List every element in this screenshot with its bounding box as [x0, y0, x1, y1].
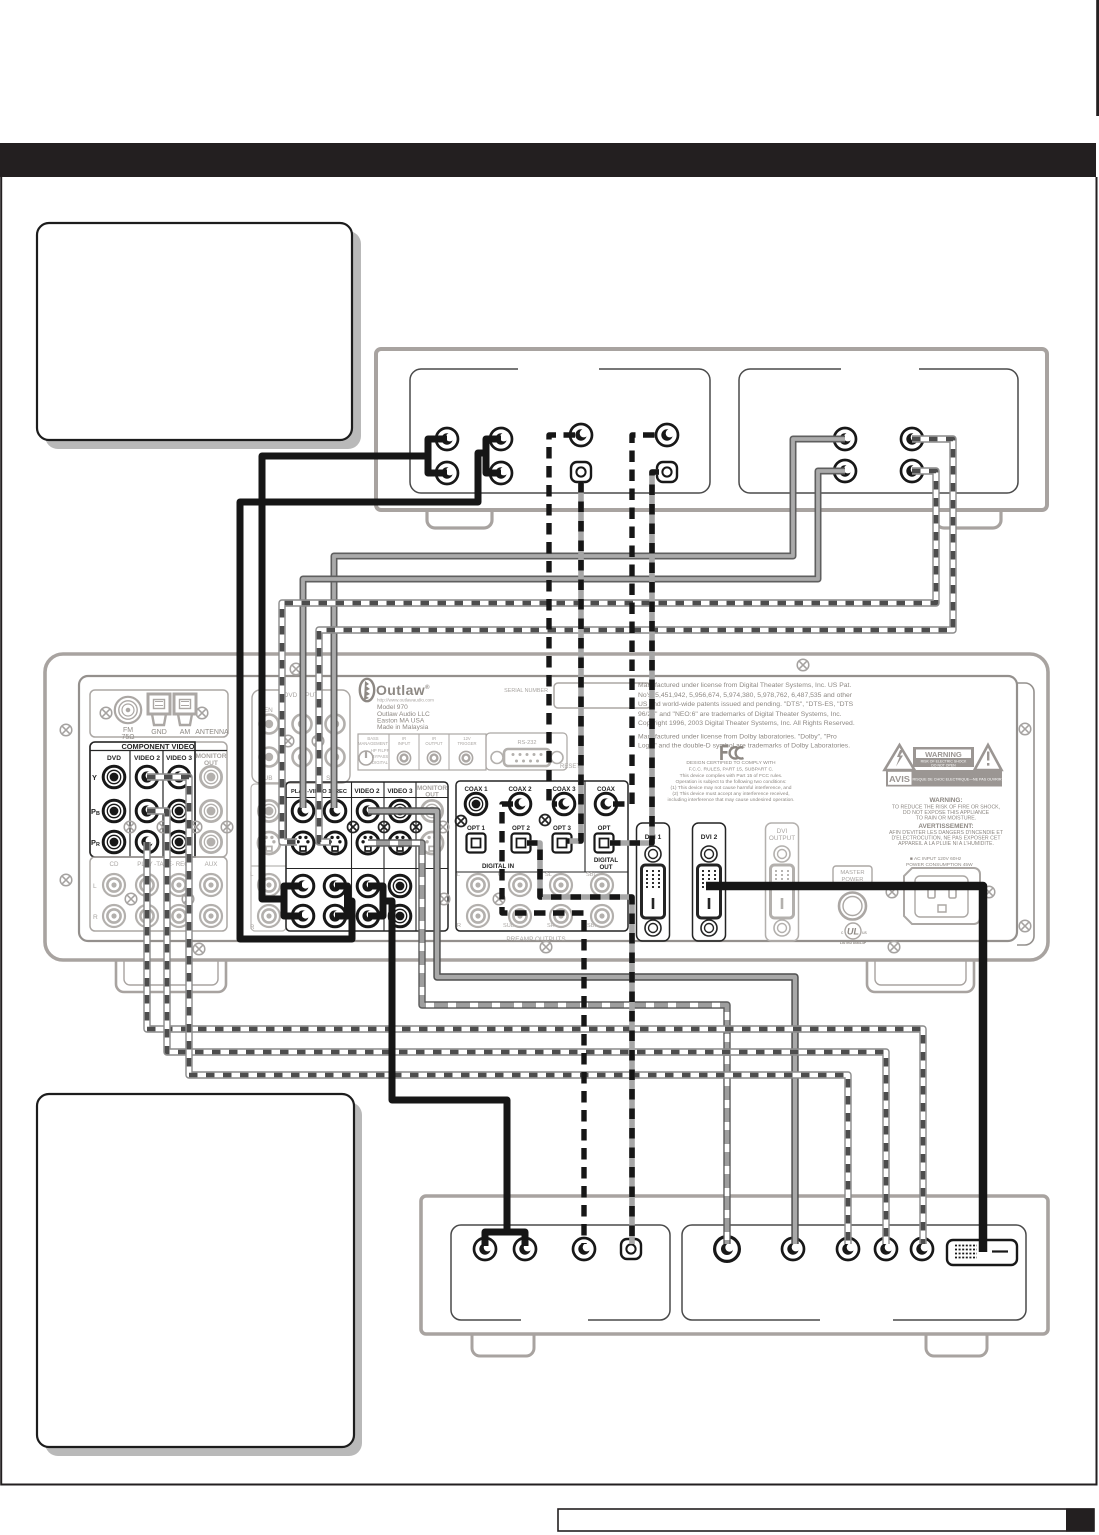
video box: [286, 782, 448, 931]
component jacks DVD col: [103, 766, 125, 788]
master power: [833, 866, 872, 884]
svg-text:OPT: OPT: [598, 825, 611, 832]
receiver inner panel: [79, 676, 1017, 941]
DTS license text: [638, 682, 855, 750]
component column dividers: [130, 751, 195, 858]
svg-text:R: R: [250, 924, 255, 931]
s-video jacks row: [292, 832, 314, 854]
TV inner box 1: [451, 1225, 670, 1320]
svg-text:DVD: DVD: [107, 755, 121, 762]
svg-text:COMPONENT VIDEO: COMPONENT VIDEO: [121, 742, 194, 751]
DVI 1 connector: [637, 823, 670, 941]
top device video out jack A2: [834, 460, 856, 482]
svg-text:VIDEO 2: VIDEO 2: [354, 788, 380, 795]
coax digital jacks: [465, 793, 487, 815]
wire S7 striped: component Y to TV Y: [147, 777, 848, 1244]
DVI output connector: [766, 823, 799, 941]
svg-text:PREAMP OUTPUTS: PREAMP OUTPUTS: [506, 936, 565, 943]
warning text english: [889, 797, 1004, 847]
FM 75ohm coax connector: [115, 697, 141, 723]
FCC text block: [668, 760, 795, 803]
audio row labels: [93, 883, 98, 921]
DB9 connector: [491, 749, 563, 766]
component screws: [124, 821, 136, 833]
svg-text:Model 970: Model 970: [377, 704, 408, 711]
svg-text:OPT 2: OPT 2: [512, 825, 530, 832]
svg-text:RESET: RESET: [560, 764, 580, 770]
TV component jack Pb: [875, 1238, 897, 1260]
wire B1 striped: top device B1 to REC s-video: [319, 439, 953, 842]
svg-text:75Ω: 75Ω: [121, 734, 134, 741]
svg-text:Manufactured under license fro: Manufactured under license from Dolby la…: [638, 734, 837, 741]
wire W1 black: top device L1/R1 to PLAY audio: [240, 439, 525, 1246]
top device jack audio R2: [490, 462, 512, 484]
RS-232 box: [486, 733, 567, 770]
svg-text:UL: UL: [847, 927, 859, 937]
svg-text:VIDEO 3: VIDEO 3: [166, 755, 192, 762]
svg-text:LISTED 8X64-4P: LISTED 8X64-4P: [840, 941, 867, 945]
callout box bottom-left shadow: [45, 1102, 362, 1456]
top device optical digital jack 1: [571, 462, 591, 482]
TV chassis: [421, 1196, 1048, 1356]
callout box top-left: [37, 223, 352, 440]
svg-text:R: R: [93, 914, 98, 921]
TV video jack 2: [782, 1238, 804, 1260]
svg-text:Manufactured under license fro: Manufactured under license from Digital …: [638, 682, 851, 689]
video audio jacks rows: [292, 875, 314, 897]
UL logo: [845, 923, 861, 939]
left audio screws: [125, 893, 137, 905]
svg-text:US and world-wide patents iss: US and world-wide patents issued and pen…: [638, 701, 854, 708]
bass management / IR / trigger box: [358, 734, 486, 770]
svg-text:F.C.C. RULES, PART 15, SUBPART: F.C.C. RULES, PART 15, SUBPART C.: [689, 767, 774, 773]
svg-text:DIGITAL IN: DIGITAL IN: [482, 863, 515, 870]
svg-text:No's: 5,451,942, 5,956,674, 5,: No's: 5,451,942, 5,956,674, 5,974,380, 5…: [638, 692, 853, 699]
svg-text:OPT 1: OPT 1: [467, 825, 485, 832]
TV component jack Y: [837, 1238, 859, 1260]
gray DVD video column jacks: [258, 800, 279, 821]
wire G2 gray: top device A2 to PLAY composite: [303, 471, 845, 808]
wire D1 dashed: top device coax 1 to COAX3: [549, 435, 575, 804]
svg-text:GND: GND: [151, 729, 167, 736]
svg-text:This device complies with Part: This device complies with Part 15 of FCC…: [680, 773, 783, 779]
DVD input jacks: [260, 715, 279, 734]
svg-text:SL: SL: [545, 872, 552, 878]
warning shock hazard graphic: [885, 745, 1003, 787]
video headers: [291, 785, 447, 799]
svg-text:DIGITAL: DIGITAL: [594, 857, 619, 864]
svg-text:us: us: [862, 930, 868, 935]
AC inlet: [904, 868, 980, 924]
receiver right side strip: [1017, 683, 1034, 945]
TV video jack 1: [715, 1237, 740, 1262]
svg-text:OUT: OUT: [599, 864, 612, 871]
TV coax jack: [573, 1238, 595, 1260]
top device video out jack B2: [901, 460, 923, 482]
wire W4 black DVI: DVI2 to TV DVI: [706, 886, 983, 1252]
svg-text:Made in Malaysia: Made in Malaysia: [377, 724, 429, 731]
footer black square: [1066, 1508, 1095, 1531]
video box dividers: [286, 782, 448, 931]
svg-text:TRIGGER: TRIGGER: [457, 741, 476, 746]
component video box: [90, 742, 227, 857]
composite video jacks row: [292, 800, 314, 822]
video box screws: [348, 822, 359, 833]
wire D2 dashed: COAX out to top device coax 2: [613, 435, 661, 804]
top device right foot: [936, 508, 1001, 528]
wire S6 striped: component Pb to TV Pb: [147, 811, 886, 1244]
svg-text:AVIS: AVIS: [889, 774, 910, 784]
svg-text:SERIAL NUMBER: SERIAL NUMBER: [504, 688, 548, 694]
receiver right foot: [867, 960, 974, 992]
svg-text:AVERTISSEMENT:: AVERTISSEMENT:: [918, 823, 973, 830]
FCC logo: [722, 746, 744, 760]
top device inner panel 1: [410, 369, 1018, 493]
svg-text:OUTPUT: OUTPUT: [425, 741, 443, 746]
bass knob: [359, 751, 373, 765]
TV component jack Pr: [911, 1238, 933, 1260]
svg-text:RISQUE DE CHOC ELECTRIQUE—NE P: RISQUE DE CHOC ELECTRIQUE—NE PAS OUVRIR: [912, 778, 1001, 782]
svg-text:ANTENNA: ANTENNA: [195, 729, 229, 736]
svg-text:MASTER: MASTER: [840, 870, 864, 876]
svg-text:RS-232: RS-232: [518, 740, 537, 746]
top device jack audio L2: [490, 428, 512, 450]
svg-text:http://www.outlawaudio.com: http://www.outlawaudio.com: [377, 698, 434, 703]
preamp jacks: [467, 874, 489, 896]
svg-text:(1) This device may not cause: (1) This device may not cause harmful in…: [671, 785, 792, 791]
svg-text:WARNING: WARNING: [925, 750, 962, 759]
top device inner panel 2: [739, 369, 1018, 493]
TV optical jack: [621, 1239, 641, 1259]
receiver left foot: [116, 960, 974, 992]
TV audio jack R: [514, 1238, 536, 1260]
svg-text:HP FILPF: HP FILPF: [371, 748, 390, 753]
IR output jack: [427, 751, 440, 764]
header black bar: [0, 143, 1096, 177]
svg-text:INPUT: INPUT: [398, 741, 411, 746]
AC screws: [886, 886, 898, 898]
callout box bottom-left: [37, 1094, 354, 1447]
digital/preamp box: [456, 781, 628, 931]
wire S9 striped: VIDEO2 s-video to TV video jack 1: [368, 843, 727, 1244]
wire W2 black: top device L2/R2 to REC audio: [486, 439, 501, 473]
wire O1 optical: top device optical 1 to OPT3: [567, 482, 581, 841]
component jacks MONITOR col: [200, 766, 221, 787]
top device video out jack B1: [901, 428, 923, 450]
svg-text:including interference that ma: including interference that may cause un…: [668, 797, 795, 803]
TV left foot: [472, 1334, 534, 1356]
wire S5 striped: component Pr to TV Pr: [147, 842, 923, 1244]
wire O3 optical: OPT2 to TV optical: [527, 843, 632, 1244]
svg-text:APPAREIL A LA PLUIE NI A L'HUM: APPAREIL A LA PLUIE NI A L'HUMIDITE.: [898, 841, 994, 847]
svg-text:96/24" and "NEO:6" are tradema: 96/24" and "NEO:6" are trademarks of Dig…: [638, 711, 842, 718]
digital labels: [464, 786, 618, 871]
audio headers: [110, 861, 218, 868]
antenna screw right: [196, 707, 208, 719]
TV DVI connector: [947, 1240, 1017, 1265]
top device jack audio R1: [436, 462, 458, 484]
IR input jack: [397, 751, 410, 764]
preamp screws: [438, 893, 450, 905]
receiver chassis outer: [45, 654, 1048, 960]
top device jack audio L1: [436, 428, 458, 450]
svg-text:WARNING:: WARNING:: [929, 797, 962, 804]
TV right foot: [926, 1334, 987, 1356]
wire B2 striped: top device B2 to PLAY s-video: [282, 471, 936, 842]
callout box top-left shadow: [45, 231, 361, 449]
svg-text:MONITOR: MONITOR: [195, 753, 226, 760]
svg-text:MANAGEMENT: MANAGEMENT: [358, 741, 388, 746]
gray DVD video column box: [251, 784, 286, 931]
optical digital jacks: [467, 834, 486, 853]
DVI 2 connector: [693, 823, 726, 941]
TV inner box 2: [682, 1225, 1026, 1320]
left audio jacks: [103, 874, 125, 896]
svg-text:Copyright 1996, 2003 Digital T: Copyright 1996, 2003 Digital Theater Sys…: [638, 720, 855, 727]
svg-text:L: L: [93, 883, 97, 890]
svg-text:OUT: OUT: [425, 792, 439, 799]
receiver strip screws: [290, 663, 302, 675]
component video title rule: [90, 750, 227, 752]
left audio box: [90, 857, 227, 931]
svg-text:CD: CD: [110, 861, 119, 868]
wire G1 gray: top device A1 to REC composite: [334, 439, 845, 808]
top-right corner tick: [1096, 0, 1099, 116]
svg-text:Logic" and the double-D symbol: Logic" and the double-D symbol are trade…: [638, 743, 850, 750]
svg-text:BYPASS: BYPASS: [372, 754, 389, 759]
svg-text:DO NOT OPEN: DO NOT OPEN: [931, 764, 956, 768]
svg-text:VIDEO 2: VIDEO 2: [134, 755, 160, 762]
svg-text:R: R: [457, 923, 461, 929]
svg-text:DVI 2: DVI 2: [701, 834, 718, 841]
digital screws: [456, 816, 467, 827]
svg-text:■ AC INPUT 120V 60Hz: ■ AC INPUT 120V 60Hz: [910, 856, 962, 862]
svg-text:L: L: [250, 871, 254, 878]
component jacks VIDEO2 col (plugged): [136, 766, 158, 788]
svg-text:(2) This device must accept an: (2) This device must accept any interfer…: [672, 791, 789, 797]
svg-text:Y: Y: [92, 773, 97, 782]
svg-text:DESIGN CERTIFIED TO COMPLY WIT: DESIGN CERTIFIED TO COMPLY WITH: [686, 760, 776, 766]
svg-text:AM: AM: [180, 729, 191, 736]
serial number box: [554, 683, 651, 708]
footer bar: [558, 1509, 1094, 1531]
12V trigger jack: [459, 751, 472, 764]
antenna screw left: [100, 707, 112, 719]
top device coax digital jack 1: [570, 424, 592, 446]
wire O2 optical: OPT out to top device optical 2: [610, 472, 659, 843]
component row labels: [91, 773, 100, 848]
wire W3 black: VIDEO2 audio to TV audio: [368, 886, 383, 916]
AM binding post: [174, 694, 196, 725]
preamp labels: [457, 872, 599, 943]
svg-text:OPT 3: OPT 3: [553, 825, 571, 832]
top device (DVD player) chassis: [376, 349, 1047, 528]
component jacks VIDEO3 col: [168, 766, 190, 788]
top device video out jack A1: [834, 428, 856, 450]
component video active sub-box: [90, 742, 195, 857]
svg-text:OUTPUT: OUTPUT: [769, 835, 795, 842]
svg-text:L: L: [457, 872, 460, 878]
antenna section box: [90, 690, 228, 737]
wire D3 dashed: COAX2 to TV coax: [502, 804, 584, 1244]
svg-text:DVI: DVI: [777, 828, 788, 835]
component headers: [107, 753, 227, 767]
antenna labels: [121, 727, 229, 741]
top device optical digital jack 2: [657, 462, 677, 482]
DVD INPUT box: [252, 690, 350, 783]
svg-text:AUX: AUX: [205, 861, 218, 868]
svg-text:VIDEO 3: VIDEO 3: [387, 788, 413, 795]
GND binding post: [148, 694, 170, 725]
svg-text:Operation is subject to the fo: Operation is subject to the following tw…: [676, 779, 787, 785]
Outlaw logo: [360, 679, 374, 701]
svg-text:DIGITAL: DIGITAL: [372, 760, 389, 765]
TV audio jack L: [474, 1238, 496, 1260]
top device left foot: [427, 508, 492, 528]
svg-text:FM: FM: [123, 727, 133, 734]
svg-text:TO RAIN OR MOISTURE.: TO RAIN OR MOISTURE.: [916, 816, 976, 822]
top device coax digital jack 2: [656, 424, 678, 446]
svg-text:Outlaw®: Outlaw®: [376, 682, 430, 698]
AC input label: [906, 856, 973, 868]
wire S8 gray: VIDEO2 composite to TV video jack 2: [368, 811, 795, 1244]
